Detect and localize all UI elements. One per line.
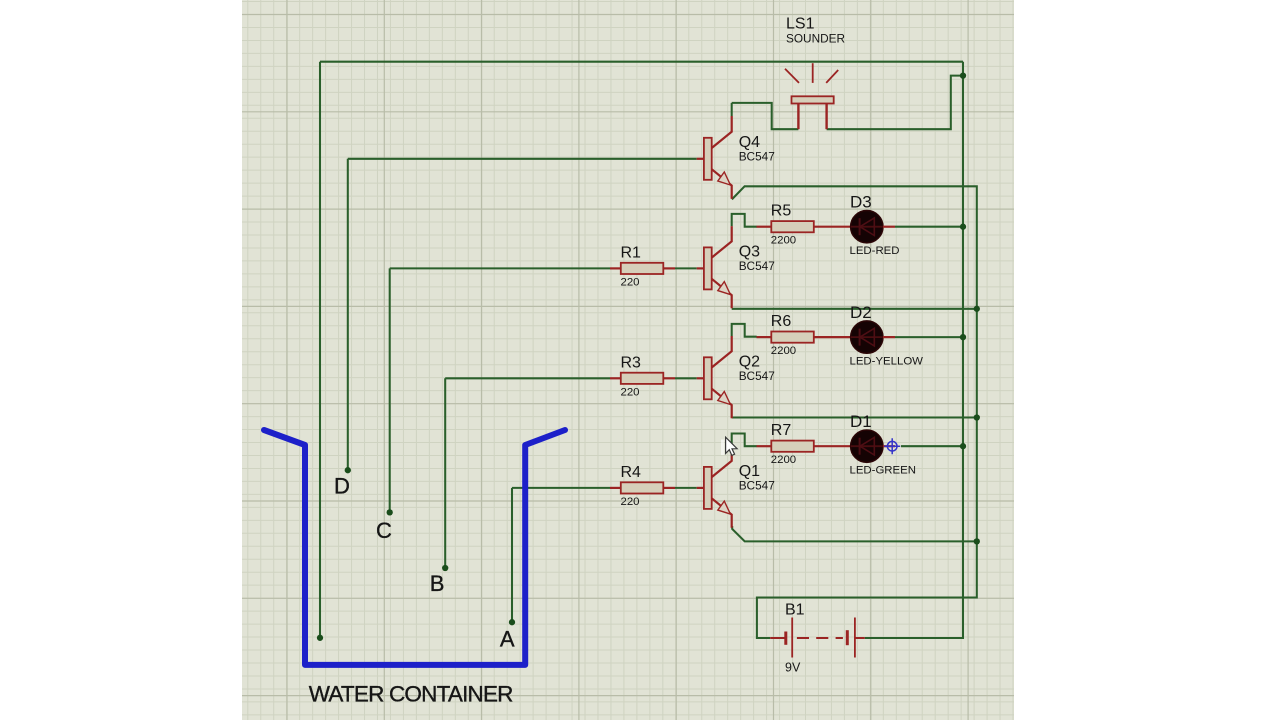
- svg-text:BC547: BC547: [739, 479, 775, 493]
- svg-text:R3: R3: [621, 354, 642, 371]
- svg-text:WATER CONTAINER: WATER CONTAINER: [309, 682, 513, 707]
- svg-text:SOUNDER: SOUNDER: [786, 32, 845, 46]
- svg-text:220: 220: [621, 496, 640, 508]
- svg-text:R7: R7: [771, 422, 792, 439]
- svg-text:2200: 2200: [771, 235, 796, 247]
- svg-text:B1: B1: [785, 602, 805, 619]
- svg-text:LED-RED: LED-RED: [850, 245, 900, 257]
- svg-text:2200: 2200: [771, 454, 796, 466]
- svg-text:R4: R4: [621, 464, 642, 481]
- svg-text:R1: R1: [621, 244, 642, 261]
- svg-text:B: B: [430, 571, 445, 596]
- svg-text:D1: D1: [850, 412, 872, 431]
- svg-text:220: 220: [621, 276, 640, 288]
- svg-text:LED-GREEN: LED-GREEN: [850, 464, 916, 476]
- svg-text:220: 220: [621, 386, 640, 398]
- svg-text:Q1: Q1: [739, 463, 760, 480]
- svg-text:D: D: [334, 473, 350, 498]
- svg-text:D2: D2: [850, 303, 872, 322]
- svg-text:BC547: BC547: [739, 369, 775, 383]
- svg-text:BC547: BC547: [739, 150, 775, 164]
- svg-text:A: A: [500, 627, 515, 652]
- svg-text:LS1: LS1: [786, 15, 815, 32]
- svg-text:R6: R6: [771, 313, 792, 330]
- svg-text:Q3: Q3: [739, 243, 760, 260]
- svg-text:Q4: Q4: [739, 134, 760, 151]
- svg-text:9V: 9V: [785, 660, 801, 674]
- svg-text:LED-YELLOW: LED-YELLOW: [850, 355, 924, 367]
- svg-text:2200: 2200: [771, 345, 796, 357]
- svg-text:C: C: [376, 518, 392, 543]
- svg-text:Q2: Q2: [739, 353, 760, 370]
- svg-text:R5: R5: [771, 203, 792, 220]
- svg-text:D3: D3: [850, 193, 872, 212]
- svg-text:BC547: BC547: [739, 259, 775, 273]
